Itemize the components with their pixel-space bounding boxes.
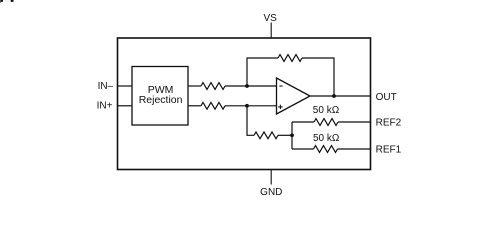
svg-text:50 kΩ: 50 kΩ [313, 133, 340, 144]
op-amp plus sign [278, 105, 282, 109]
svg-text:OUT: OUT [376, 92, 397, 103]
svg-text:VS: VS [264, 13, 278, 24]
resistor R4 (divider left) [254, 132, 278, 139]
wire: GND lead [270, 170, 272, 185]
wire: IN+ lead [118, 105, 133, 107]
svg-text:50 kΩ: 50 kΩ [313, 105, 340, 116]
svg-text:IN+: IN+ [97, 101, 113, 112]
resistor R2 (bottom input) [201, 102, 225, 109]
wire: PWM to R1 [188, 85, 201, 87]
resistor R5 50k (REF2) [314, 119, 338, 126]
node: plus input junction [245, 104, 249, 108]
node: minus input junction [245, 84, 249, 88]
wire: VS lead [270, 23, 272, 39]
op-amp minus sign [279, 85, 282, 87]
resistor R1 (top input) [201, 83, 225, 90]
svg-text:IN–: IN– [98, 81, 114, 92]
node: divider midpoint junction [290, 133, 294, 137]
svg-text:REF1: REF1 [376, 145, 402, 156]
wire: divider vertical between REF rows [291, 122, 293, 149]
node: output junction [332, 94, 336, 98]
wire: op-amp output to OUT pin [310, 95, 371, 97]
wire: feedback left vertical [247, 58, 278, 86]
outer box (IC boundary) [118, 38, 371, 170]
wire: divider from plus input down [247, 106, 254, 136]
PWM Rejection block [132, 67, 188, 126]
svg-text:GND: GND [260, 187, 282, 198]
wire: REF2 row left [292, 121, 314, 123]
resistor R3 (feedback) [278, 55, 302, 62]
resistor R6 50k (REF1) [314, 146, 338, 153]
svg-text:Rejection: Rejection [139, 94, 183, 106]
wire: R1 to op-amp minus input [225, 85, 277, 87]
op-amp U1 [277, 78, 311, 114]
svg-text:REF2: REF2 [376, 118, 402, 129]
wire: IN- lead [118, 85, 133, 87]
wire: PWM to R2 [188, 105, 201, 107]
wire: REF1 row right [338, 148, 371, 150]
cropped caption fragment top-left [0, 0, 13, 3]
wire: R2 to op-amp plus input [225, 105, 277, 107]
wire: REF1 row left [292, 148, 314, 150]
wire: feedback right side down to output [302, 58, 334, 96]
wire: REF2 row right [338, 121, 371, 123]
wire: R4 to divider junction [278, 134, 292, 136]
